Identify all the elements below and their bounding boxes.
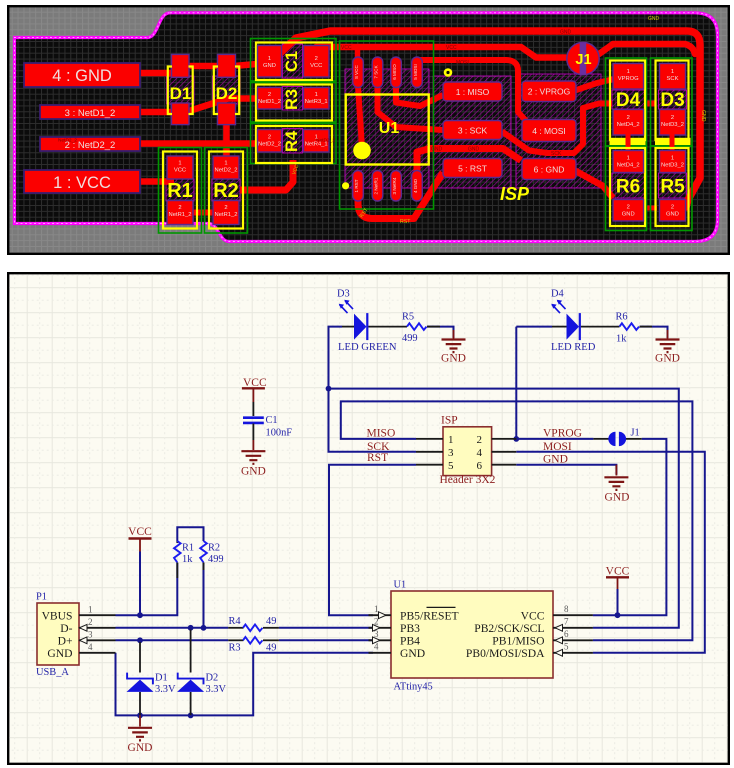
via yellow dot below U1 — [342, 182, 349, 189]
wire D2 to C1 pad1 — [234, 64, 262, 67]
svg-text:J1: J1 — [575, 52, 591, 68]
svg-text:LED RED: LED RED — [551, 342, 596, 353]
courtyard C1 — [251, 39, 337, 82]
svg-text:5: 5 — [564, 642, 569, 652]
svg-text:7 SCK: 7 SCK — [374, 64, 379, 78]
svg-text:1: 1 — [627, 156, 630, 162]
resistor R1 pcb — [163, 152, 197, 229]
svg-text:2: 2 — [224, 205, 227, 211]
svg-text:NetD2_2: NetD2_2 — [215, 168, 238, 174]
ground usb — [139, 715, 141, 726]
wire D2 bottom to R2 top — [223, 120, 230, 160]
svg-text:R3: R3 — [283, 89, 301, 110]
hatch D1 — [167, 76, 195, 104]
hatch R4 mid — [283, 129, 303, 154]
wire VCC to VBUS — [139, 539, 141, 552]
trace R2 to R4 block VCC — [240, 160, 293, 190]
svg-text:2: 2 — [315, 56, 318, 62]
hatch region U1 — [345, 69, 429, 188]
svg-text:GND: GND — [560, 30, 572, 36]
svg-text:1 : MISO: 1 : MISO — [456, 87, 490, 97]
ground C1 — [241, 451, 265, 464]
hatch R3 mid — [283, 87, 303, 111]
trace D4 R6 link over bar — [626, 132, 631, 154]
svg-text:3 NetR4: 3 NetR4 — [392, 177, 397, 194]
courtyard R4 — [251, 124, 337, 164]
trace J1 right to rail — [599, 44, 695, 54]
svg-text:2: 2 — [477, 434, 483, 446]
svg-text:GND: GND — [648, 16, 660, 22]
svg-text:GND: GND — [468, 147, 480, 153]
svg-text:1: 1 — [268, 56, 271, 62]
svg-text:6 : GND: 6 : GND — [534, 165, 565, 175]
svg-text:GND: GND — [263, 63, 276, 69]
courtyard R2 — [205, 148, 248, 234]
courtyard U1 — [340, 41, 434, 209]
zener D2 — [178, 673, 204, 685]
svg-text:D1: D1 — [155, 673, 168, 684]
svg-text:SCK: SCK — [551, 151, 562, 157]
node SCK junction — [326, 386, 332, 392]
svg-text:NetD2_2: NetD2_2 — [258, 142, 281, 148]
svg-text:R4: R4 — [283, 130, 301, 152]
wire R5 to GND — [427, 327, 454, 338]
wire VBUS net — [116, 563, 178, 615]
node D+ D1 junction — [137, 637, 143, 643]
svg-text:C1: C1 — [283, 51, 301, 72]
svg-text:4 : GND: 4 : GND — [52, 67, 112, 85]
svg-text:D4: D4 — [551, 289, 565, 300]
svg-text:499: 499 — [402, 333, 418, 344]
pad ISP 3 SCK — [443, 121, 502, 140]
svg-text:NetD3_2: NetD3_2 — [661, 163, 684, 169]
svg-text:5 MOSI: 5 MOSI — [413, 64, 418, 80]
svg-text:ISP: ISP — [441, 415, 458, 427]
svg-text:VBUS: VBUS — [42, 610, 73, 623]
wire J1 pin stubs — [593, 438, 641, 440]
zener D1 — [127, 673, 153, 685]
hatch D4 mid — [612, 90, 645, 109]
wire R4 right to U1 PB3 — [279, 627, 373, 629]
svg-text:D3: D3 — [337, 289, 350, 300]
trace VPROG ISP to D4 — [575, 79, 614, 91]
via yellow dot near U1 top — [444, 68, 453, 77]
svg-text:U1: U1 — [394, 580, 407, 591]
trace R6 R5 GND bridge — [642, 206, 657, 211]
outline bar under D3 — [655, 138, 691, 145]
svg-text:1: 1 — [448, 434, 454, 446]
trace RST loop — [358, 173, 443, 219]
wire D2 column — [190, 630, 192, 716]
wire R1 R2 bottom bridge — [192, 210, 214, 216]
svg-text:P1: P1 — [36, 592, 47, 603]
svg-text:VCC: VCC — [341, 45, 352, 51]
svg-text:D+: D+ — [58, 635, 73, 648]
svg-text:PB3: PB3 — [400, 622, 420, 635]
courtyard R1 — [159, 148, 202, 234]
hatch R6 mid — [612, 173, 645, 198]
wire NetD2_2 to R4 — [140, 140, 260, 147]
svg-text:49: 49 — [266, 643, 276, 654]
resistor R1 — [176, 541, 178, 543]
svg-text:R5: R5 — [660, 177, 685, 198]
hatch region ISP right — [516, 74, 601, 188]
svg-text:GND: GND — [622, 212, 635, 218]
svg-text:VCC: VCC — [310, 63, 322, 69]
svg-text:2: 2 — [268, 92, 271, 98]
svg-text:D2: D2 — [216, 84, 238, 103]
ground R6 — [667, 330, 669, 339]
svg-text:R1: R1 — [167, 180, 193, 202]
svg-text:ATtiny45: ATtiny45 — [394, 682, 433, 693]
svg-text:SCK: SCK — [667, 76, 679, 82]
wire MISO net — [341, 401, 693, 640]
svg-text:R1: R1 — [182, 543, 194, 554]
pad ISP 2 VPROG — [522, 81, 576, 102]
svg-text:LED GREEN: LED GREEN — [338, 342, 397, 353]
pad 4 GND usb finger — [24, 63, 140, 87]
svg-text:GND: GND — [241, 466, 266, 478]
svg-text:R2: R2 — [213, 180, 239, 202]
svg-text:GND: GND — [543, 454, 568, 466]
svg-text:MISO: MISO — [367, 428, 396, 440]
hatch R2 — [212, 179, 240, 201]
diode D4 pcb — [610, 61, 645, 141]
pad 2 NetD2_2 usb finger — [40, 137, 140, 151]
trace VCC inside U1 — [358, 86, 362, 148]
svg-text:NetD3_2: NetD3_2 — [661, 122, 684, 128]
wire D4 cathode to R6 — [581, 326, 620, 328]
connector J1 — [608, 432, 615, 446]
diode D1 pcb — [172, 54, 190, 77]
svg-text:R6: R6 — [616, 312, 628, 323]
wire R1 R2 top rail — [177, 527, 203, 541]
courtyard R6 — [606, 146, 647, 231]
node VPROG D4 junction — [513, 436, 519, 442]
svg-text:MOSI: MOSI — [543, 441, 572, 453]
resistor R6 — [620, 323, 640, 330]
capacitor C1 pcb — [256, 43, 332, 81]
svg-text:PB1/MISO: PB1/MISO — [492, 635, 544, 648]
svg-text:3: 3 — [448, 447, 454, 459]
svg-text:NetR1_2: NetR1_2 — [169, 212, 192, 218]
trace D4 to R6 link — [626, 132, 631, 154]
node GND D2 junction — [188, 713, 194, 719]
pad 1 VCC usb finger — [24, 170, 140, 193]
wire D4 to VPROG vertical — [516, 327, 552, 439]
svg-text:1: 1 — [671, 69, 674, 75]
svg-text:1: 1 — [178, 161, 181, 167]
svg-text:VCC: VCC — [128, 526, 152, 538]
node D- D2 junction — [188, 625, 194, 631]
svg-text:1: 1 — [224, 161, 227, 167]
svg-text:1: 1 — [374, 604, 379, 614]
wire pad4 GND to D1 — [140, 70, 174, 77]
trace SCK ISP to D3 — [502, 104, 612, 154]
svg-text:D4: D4 — [616, 90, 641, 111]
svg-text:VCC: VCC — [174, 168, 186, 174]
svg-text:3 : NetD1_2: 3 : NetD1_2 — [65, 108, 116, 119]
wire D1 bottom to R3 — [186, 99, 260, 113]
trace GND ISP pad6 to R6 — [574, 170, 613, 198]
svg-text:VPROG: VPROG — [618, 76, 639, 82]
trace GND U1 to ISP pad6 — [417, 149, 521, 172]
svg-text:1k: 1k — [616, 334, 627, 345]
wire R3 right to U1 PB4 — [279, 639, 373, 641]
node VBUS-VCC junction — [137, 612, 143, 618]
svg-text:2: 2 — [671, 205, 674, 211]
hatch R1 — [166, 179, 194, 201]
svg-text:VCC: VCC — [521, 610, 545, 623]
pad ISP 1 MISO — [443, 82, 502, 101]
svg-text:D3: D3 — [660, 90, 684, 111]
wire GND rail usb — [116, 653, 374, 716]
wire R2 bottom to D- — [203, 563, 205, 628]
svg-text:VCC: VCC — [606, 566, 630, 578]
svg-text:1: 1 — [627, 69, 630, 75]
courtyard D4 — [606, 58, 647, 146]
pin arrows U1 — [379, 612, 387, 619]
svg-text:RST: RST — [400, 219, 411, 225]
svg-text:D-: D- — [60, 622, 72, 635]
wire ISP GND net — [516, 465, 616, 475]
svg-text:3 : SCK: 3 : SCK — [458, 126, 488, 136]
trace SCK U1 to ISP — [378, 86, 444, 130]
svg-text:R5: R5 — [402, 312, 414, 323]
svg-text:R3: R3 — [229, 643, 241, 654]
diode D3 pcb — [656, 61, 689, 141]
svg-text:GND: GND — [605, 492, 630, 504]
svg-text:GND: GND — [47, 647, 72, 660]
svg-text:GND: GND — [666, 212, 679, 218]
svg-text:2 NetR1: 2 NetR1 — [374, 177, 379, 194]
wire MOSI net — [516, 452, 705, 653]
svg-text:R6: R6 — [616, 177, 640, 198]
svg-text:D2: D2 — [206, 673, 219, 684]
svg-text:ISP: ISP — [500, 184, 530, 204]
svg-text:8 VCC: 8 VCC — [354, 65, 359, 79]
trace MISO U1 to ISP — [396, 86, 443, 106]
svg-text:100nF: 100nF — [266, 428, 293, 439]
svg-text:1: 1 — [88, 605, 93, 615]
svg-text:R2: R2 — [208, 543, 220, 554]
resistor R4 pcb — [256, 126, 332, 163]
svg-text:NetR1_2: NetR1_2 — [215, 212, 238, 218]
svg-text:VCC: VCC — [446, 45, 457, 51]
node D- R2 junction — [201, 625, 207, 631]
svg-text:2: 2 — [178, 205, 181, 211]
outline bar under D4 — [610, 138, 646, 145]
hatch region ISP left — [433, 76, 511, 188]
svg-text:2: 2 — [268, 135, 271, 141]
hatch R5 mid — [659, 173, 687, 198]
PCB panel frame — [8, 6, 729, 254]
svg-text:6: 6 — [477, 460, 483, 472]
wire pad1 VCC to R1 — [140, 178, 174, 185]
svg-text:NetD2_2: NetD2_2 — [316, 138, 335, 144]
resistor R5 — [407, 323, 427, 330]
svg-text:RST: RST — [367, 452, 388, 464]
svg-text:NetR3_1: NetR3_1 — [305, 99, 328, 105]
svg-text:U1: U1 — [379, 120, 400, 137]
svg-text:NetD2_2: NetD2_2 — [58, 138, 77, 144]
svg-text:USB_A: USB_A — [36, 667, 69, 678]
wire VCC right column — [617, 589, 619, 615]
svg-text:4: 4 — [477, 447, 483, 459]
svg-text:8: 8 — [564, 604, 569, 614]
svg-text:Header 3X2: Header 3X2 — [440, 474, 496, 486]
svg-text:GND: GND — [700, 110, 706, 122]
pad ISP 6 GND — [522, 159, 576, 180]
svg-text:1 RST: 1 RST — [354, 179, 359, 192]
diode D2 pcb — [218, 54, 236, 77]
svg-text:2: 2 — [671, 115, 674, 121]
svg-text:1 : VCC: 1 : VCC — [53, 174, 111, 192]
node VCC U1 junction — [615, 612, 621, 618]
svg-text:6: 6 — [564, 629, 569, 639]
svg-text:PB2/SCK/SCL: PB2/SCK/SCL — [474, 622, 544, 635]
svg-text:4 GND: 4 GND — [413, 178, 418, 193]
svg-text:4: 4 — [88, 642, 93, 652]
trace VCC rail — [316, 47, 566, 58]
hatch D3 mid — [659, 90, 687, 109]
svg-text:499: 499 — [208, 554, 224, 565]
svg-text:GND: GND — [655, 353, 680, 365]
svg-text:NetD1_2: NetD1_2 — [258, 99, 281, 105]
wire SCK net — [329, 327, 679, 628]
wire D+ net — [116, 639, 229, 641]
wire pad3 NetD1_2 to D1 bottom — [140, 109, 174, 116]
svg-text:MOSI: MOSI — [456, 60, 469, 66]
svg-text:2: 2 — [627, 115, 630, 121]
wire D- net — [116, 627, 229, 629]
resistor R3 pcb — [256, 85, 332, 121]
svg-text:1: 1 — [671, 156, 674, 162]
svg-text:PB0/MOSI/SDA: PB0/MOSI/SDA — [466, 647, 545, 660]
hatch C1 mid — [283, 44, 303, 78]
resistor R6 pcb — [610, 148, 645, 226]
wire D3 anode from SCK — [368, 326, 407, 328]
trace GND top rail — [278, 31, 700, 207]
resistor R2 pcb — [209, 152, 243, 229]
resistor R3 — [228, 639, 243, 641]
svg-text:PB5/RESET: PB5/RESET — [400, 610, 459, 623]
trace MOSI U1 top to ISP — [417, 60, 528, 123]
svg-text:2: 2 — [627, 205, 630, 211]
svg-text:3.3V: 3.3V — [155, 684, 176, 695]
resistor R4 — [228, 627, 243, 629]
svg-text:2: 2 — [88, 617, 93, 627]
svg-text:NetD4_2: NetD4_2 — [617, 122, 640, 128]
node GND D1 junction — [137, 713, 143, 719]
svg-text:PB4: PB4 — [400, 635, 420, 648]
svg-text:GND: GND — [128, 742, 153, 754]
courtyard R5 — [651, 146, 693, 231]
wire D1 column — [139, 642, 141, 715]
resistor R5 pcb — [656, 148, 689, 226]
svg-text:3.3V: 3.3V — [206, 684, 227, 695]
ground R5 — [453, 330, 455, 339]
svg-text:3: 3 — [88, 630, 93, 640]
svg-text:D1: D1 — [170, 84, 192, 103]
svg-text:GND: GND — [441, 353, 466, 365]
pad 3 NetD1_2 usb finger — [40, 105, 140, 119]
svg-text:1k: 1k — [182, 554, 193, 565]
wire D1 to D2 top — [187, 63, 220, 70]
svg-text:4 : MOSI: 4 : MOSI — [532, 126, 566, 136]
svg-text:R4: R4 — [229, 616, 242, 627]
svg-text:J1: J1 — [631, 428, 640, 439]
svg-text:6 MISO: 6 MISO — [392, 64, 397, 80]
svg-text:GND: GND — [431, 147, 443, 153]
wire R6 to GND — [640, 327, 668, 338]
pad ISP 5 RST — [443, 159, 502, 178]
svg-text:1: 1 — [315, 92, 318, 98]
ground ISP — [615, 465, 617, 476]
wire VPROG J1 VCC net — [516, 439, 666, 615]
pad ISP 4 MOSI — [522, 120, 576, 142]
schematic panel frame — [8, 273, 729, 764]
hatch D2 — [213, 76, 241, 104]
svg-text:2 : VPROG: 2 : VPROG — [528, 87, 571, 97]
svg-text:5: 5 — [448, 460, 454, 472]
connector J1 pcb — [567, 42, 599, 74]
trace D3 to R5 link — [670, 132, 675, 154]
svg-text:NetD4_2: NetD4_2 — [617, 163, 640, 169]
courtyard D3 — [651, 58, 693, 146]
PCB board outline — [15, 13, 718, 242]
svg-text:C1: C1 — [266, 415, 278, 426]
svg-text:5 : RST: 5 : RST — [458, 164, 487, 174]
wire VCC stub to U1 pad8 — [355, 46, 361, 60]
resistor R2 — [200, 541, 207, 563]
svg-text:49: 49 — [266, 616, 276, 627]
wire RST net — [329, 465, 416, 616]
svg-text:GND: GND — [400, 647, 425, 660]
courtyard R3 — [251, 83, 337, 123]
svg-text:VPROG: VPROG — [543, 428, 582, 440]
IC U1 pcb — [353, 57, 364, 88]
trace D3 R5 link over bar — [670, 132, 675, 154]
svg-text:7: 7 — [564, 617, 569, 627]
